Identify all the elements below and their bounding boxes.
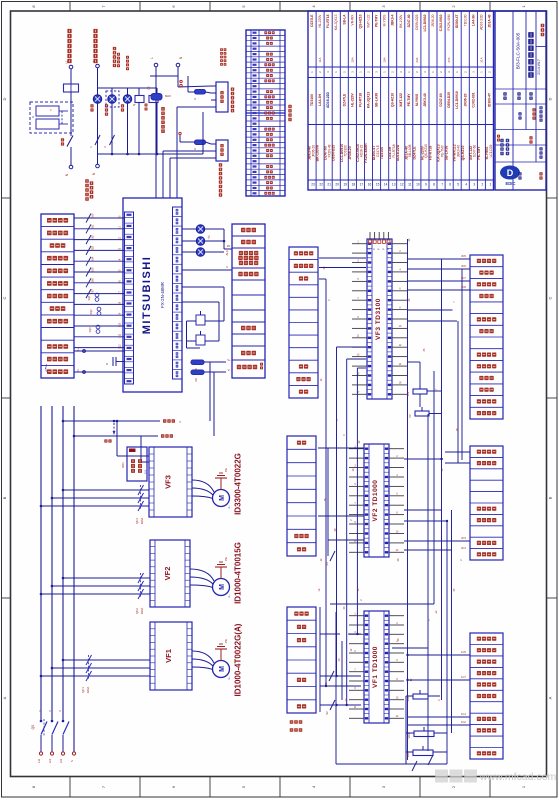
svg-text:TD3100: TD3100	[463, 14, 467, 26]
junction	[325, 685, 327, 687]
svg-text:2: 2	[415, 71, 419, 73]
junction	[440, 458, 442, 460]
svg-text:DZ47LE: DZ47LE	[412, 146, 416, 160]
svg-text:MITSUBISHI: MITSUBISHI	[141, 256, 153, 335]
svg-text:VR1: VR1	[406, 752, 410, 758]
svg-text:VF1 TD1000: VF1 TD1000	[372, 646, 379, 688]
wire S	[52, 667, 150, 669]
svg-text:QF3: QF3	[135, 518, 139, 524]
svg-text:4: 4	[311, 5, 316, 8]
svg-text:SQ1: SQ1	[88, 295, 91, 301]
wire	[406, 751, 413, 753]
svg-text:3: 3	[58, 710, 62, 712]
fuse FU0	[64, 84, 79, 92]
svg-text:2: 2	[360, 599, 363, 601]
svg-text:PE: PE	[224, 557, 228, 561]
terminal N2	[96, 164, 100, 168]
main switch QS	[41, 722, 47, 735]
svg-text:ID300-4T: ID300-4T	[455, 15, 459, 29]
sensor coil 1	[95, 293, 99, 297]
wire	[419, 394, 421, 407]
lamp HL3	[123, 95, 131, 103]
svg-text:PE: PE	[224, 468, 228, 472]
ground PE3	[220, 478, 222, 490]
svg-text:M: M	[219, 495, 226, 501]
pot RP1a	[413, 694, 428, 699]
contact S2	[330, 700, 335, 710]
svg-text:D: D	[2, 97, 7, 100]
wire	[407, 716, 470, 718]
svg-text:VF2 TD1000: VF2 TD1000	[372, 480, 379, 522]
wire	[336, 347, 338, 676]
svg-text:14: 14	[399, 363, 402, 366]
svg-text:X1: X1	[119, 226, 122, 230]
junction	[446, 520, 448, 522]
svg-text:M-Y90S: M-Y90S	[383, 14, 387, 27]
svg-text:X9: X9	[119, 312, 122, 316]
svg-text:N: N	[70, 760, 74, 762]
terminal L1	[69, 65, 73, 69]
svg-text:FU-RT18: FU-RT18	[326, 14, 330, 28]
leakage breaker QF (dashed enclosure)	[30, 102, 73, 133]
svg-text:P: P	[370, 248, 372, 250]
svg-text:20: 20	[335, 183, 339, 187]
label circuit 4	[126, 56, 129, 59]
svg-text:B/3-FLC-S0A-005: B/3-FLC-S0A-005	[516, 32, 521, 69]
svg-text:SQ3: SQ3	[89, 327, 92, 333]
braking resistor R01	[127, 447, 147, 481]
relay KA1	[216, 140, 228, 161]
svg-text:C65N-D25: C65N-D25	[447, 92, 451, 108]
svg-text:B: B	[548, 496, 553, 499]
svg-text:7: 7	[354, 669, 356, 672]
svg-text:FX2N-48M: FX2N-48M	[447, 14, 451, 30]
terminal block VF3 TD3100	[367, 239, 392, 399]
wire R	[63, 659, 150, 661]
svg-text:S4: S4	[325, 562, 329, 566]
svg-text:12: 12	[399, 344, 402, 347]
rev marks	[541, 24, 545, 28]
pot RP3a	[413, 389, 427, 394]
svg-text:N: N	[92, 172, 96, 175]
svg-text:7: 7	[101, 785, 106, 788]
wire	[451, 510, 453, 733]
svg-text:12: 12	[400, 183, 404, 187]
svg-text:3: 3	[447, 71, 451, 73]
svg-text:VF2: VF2	[163, 567, 172, 581]
svg-text:2C3: 2C3	[461, 536, 466, 540]
wire	[404, 520, 447, 522]
svg-text:4: 4	[311, 785, 316, 788]
terminal pins	[180, 80, 182, 82]
svg-text:SB1: SB1	[92, 224, 95, 229]
wire	[347, 358, 366, 360]
svg-text:3C8: 3C8	[461, 285, 466, 289]
svg-text:2: 2	[460, 559, 463, 561]
svg-text:11: 11	[357, 335, 360, 338]
wire feed bus	[98, 87, 158, 89]
svg-text:DZ47LE: DZ47LE	[310, 14, 314, 27]
wire	[319, 278, 326, 280]
svg-text:CJX2-091: CJX2-091	[471, 92, 475, 107]
inverter VF1	[150, 622, 192, 690]
wire	[188, 99, 211, 101]
svg-text:X6: X6	[119, 280, 122, 284]
svg-text:SB-LA38: SB-LA38	[375, 93, 379, 107]
contact 2	[110, 135, 115, 145]
svg-text:1: 1	[310, 71, 314, 73]
svg-text:5V: 5V	[408, 414, 412, 417]
svg-text:QF1: QF1	[81, 687, 85, 693]
wire	[337, 346, 367, 348]
wire	[407, 320, 457, 322]
svg-text:3C5: 3C5	[461, 254, 466, 258]
contact S4	[330, 551, 335, 561]
svg-text:11: 11	[354, 706, 357, 709]
svg-text:X12: X12	[119, 344, 122, 349]
svg-text:3~: 3~	[227, 505, 231, 509]
voltage arrow	[113, 423, 115, 432]
terminal T5	[176, 63, 180, 67]
contact S1	[329, 671, 334, 681]
fuse FU4	[195, 90, 206, 95]
coil KM1	[135, 96, 144, 103]
svg-text:16: 16	[368, 183, 372, 187]
input device labels column	[41, 214, 74, 378]
svg-text:R01: R01	[121, 462, 125, 468]
contact S3	[428, 755, 433, 765]
svg-text:N: N	[179, 56, 183, 59]
svg-text:5: 5	[241, 5, 246, 8]
svg-text:0: 0	[343, 434, 346, 436]
mid labels middle	[287, 436, 316, 556]
terminal T3	[154, 63, 158, 67]
wire	[330, 603, 434, 605]
svg-text:FX2N-48MR: FX2N-48MR	[364, 143, 368, 163]
right labels lower	[470, 633, 503, 759]
svg-text:5: 5	[457, 183, 459, 187]
wire	[392, 647, 428, 649]
sensor coil 3	[96, 325, 100, 329]
terminal N1	[69, 165, 73, 169]
wire	[320, 675, 361, 677]
svg-text:X3: X3	[119, 247, 122, 251]
svg-text:AD16-22D: AD16-22D	[479, 14, 483, 30]
svg-text:L21: L21	[48, 758, 52, 763]
svg-text:LA4-3H: LA4-3H	[471, 14, 475, 26]
svg-text:D25A: D25A	[140, 517, 144, 524]
wire T	[41, 675, 150, 677]
svg-text:1: 1	[455, 71, 459, 73]
svg-text:5: 5	[241, 785, 246, 788]
svg-text:QS-HZ10: QS-HZ10	[358, 14, 362, 28]
wire	[97, 68, 99, 95]
ground PE1	[220, 649, 222, 661]
svg-text:16: 16	[399, 382, 402, 385]
svg-text:18: 18	[456, 428, 459, 431]
svg-text:VF3: VF3	[164, 475, 173, 489]
svg-text:SB5: SB5	[92, 267, 95, 272]
wire	[407, 724, 470, 726]
svg-text:DZ47-60: DZ47-60	[439, 93, 443, 106]
svg-text:C: C	[2, 296, 7, 299]
svg-text:10V: 10V	[406, 391, 410, 396]
terminal pin2	[179, 132, 181, 134]
svg-text:1: 1	[407, 71, 411, 73]
wire	[404, 458, 443, 460]
lamp HL1	[93, 95, 101, 103]
svg-text:ID3300-4T0022G: ID3300-4T0022G	[234, 453, 243, 515]
svg-text:D: D	[507, 168, 514, 178]
svg-text:10: 10	[337, 658, 341, 661]
svg-text:27A: 27A	[447, 57, 451, 62]
svg-text:2014.WL7: 2014.WL7	[537, 59, 541, 75]
svg-text:P: P	[379, 248, 381, 250]
wire	[70, 92, 72, 136]
svg-text:SB3: SB3	[92, 245, 95, 250]
svg-text:D20A: D20A	[86, 686, 90, 693]
wire	[461, 269, 463, 460]
svg-text:2: 2	[451, 785, 456, 788]
svg-text:X0: X0	[119, 215, 122, 219]
svg-text:3: 3	[399, 71, 403, 73]
svg-text:L31: L31	[59, 758, 63, 763]
svg-text:v3: v3	[317, 588, 321, 591]
contact KA2	[196, 315, 205, 325]
power rail L1	[40, 406, 42, 722]
svg-text:VR3: VR3	[407, 733, 411, 739]
wire	[356, 368, 358, 634]
svg-text:TD3100: TD3100	[310, 94, 314, 106]
svg-text:FX-2N-48MR: FX-2N-48MR	[160, 282, 165, 308]
wire	[406, 732, 414, 734]
svg-text:2: 2	[439, 71, 443, 73]
svg-text:19: 19	[344, 183, 348, 187]
svg-text:1: 1	[490, 183, 492, 187]
svg-text:6: 6	[396, 493, 398, 496]
svg-text:3: 3	[350, 71, 354, 73]
svg-text:JR36-20: JR36-20	[463, 93, 467, 106]
wire	[346, 359, 348, 705]
svg-text:12: 12	[410, 678, 413, 681]
svg-text:1: 1	[521, 785, 526, 788]
drawing title	[528, 32, 534, 38]
terminal L2	[96, 64, 100, 68]
svg-text:P: P	[374, 248, 376, 250]
wire	[357, 367, 366, 369]
svg-text:23: 23	[323, 266, 326, 269]
svg-text:SB4: SB4	[92, 256, 95, 261]
svg-text:DZ47LE: DZ47LE	[342, 93, 346, 106]
svg-text:17: 17	[360, 183, 364, 187]
service power N	[74, 371, 125, 373]
lamp common wire	[205, 228, 224, 230]
junction	[406, 679, 408, 681]
svg-text:SB2: SB2	[92, 235, 95, 240]
bus N	[98, 153, 204, 155]
svg-text:8: 8	[31, 785, 36, 788]
svg-text:B: B	[2, 496, 7, 499]
svg-text:C65N-D25: C65N-D25	[332, 145, 336, 162]
svg-text:19A: 19A	[383, 57, 387, 62]
svg-text:EDIC: EDIC	[505, 181, 515, 186]
bus 220V N	[74, 435, 158, 437]
svg-text:0: 0	[328, 299, 331, 301]
motor M3	[213, 490, 230, 507]
wire	[156, 103, 158, 155]
svg-text:1: 1	[354, 613, 356, 616]
svg-text:8: 8	[433, 183, 435, 187]
svg-text:11: 11	[408, 183, 412, 187]
wire	[162, 151, 164, 198]
svg-text:FU-RT18: FU-RT18	[358, 93, 362, 107]
output device labels column	[232, 224, 265, 378]
wire	[127, 103, 129, 154]
svg-text:3~: 3~	[227, 676, 231, 680]
svg-text:4: 4	[399, 269, 401, 272]
svg-text:4: 4	[396, 474, 398, 477]
svg-text:X11: X11	[119, 333, 122, 338]
svg-text:14: 14	[384, 183, 388, 187]
svg-text:SQ2: SQ2	[90, 309, 93, 315]
bus 220V L	[63, 420, 160, 422]
svg-text:JBK3-4: JBK3-4	[391, 14, 395, 26]
svg-text:M1: M1	[227, 245, 231, 248]
label circuit 3	[113, 47, 116, 50]
svg-text:11A: 11A	[318, 57, 322, 62]
VF1 terminal stubs	[349, 615, 364, 617]
svg-text:1C7: 1C7	[461, 675, 466, 679]
svg-text:A: A	[2, 696, 7, 699]
svg-text:1C5: 1C5	[461, 650, 466, 654]
svg-text:MAX: MAX	[165, 94, 171, 98]
svg-text:Y1: Y1	[207, 235, 211, 239]
svg-text:SB0: SB0	[92, 213, 95, 218]
svg-text:20: 20	[408, 298, 411, 301]
inverter VF3	[149, 447, 192, 517]
svg-text:S2: S2	[325, 711, 329, 715]
power rail L2	[51, 406, 53, 722]
svg-text:C: C	[548, 296, 553, 299]
svg-text:JBK3-40: JBK3-40	[423, 93, 427, 107]
svg-text:M: M	[219, 584, 226, 590]
junction	[346, 704, 348, 706]
svg-text:JR36-20: JR36-20	[348, 146, 352, 159]
svg-text:3: 3	[326, 71, 330, 73]
wire	[328, 539, 364, 541]
lamp HL2	[108, 95, 116, 103]
wire	[341, 641, 343, 700]
svg-text:20: 20	[408, 238, 411, 241]
wire	[457, 321, 459, 463]
terminal block VF1 TD1000	[364, 611, 389, 723]
svg-text:8: 8	[396, 678, 398, 681]
mid labels lower	[287, 607, 316, 713]
svg-text:XMT-122: XMT-122	[399, 93, 403, 107]
wire	[407, 654, 470, 656]
svg-text:AD16-22D: AD16-22D	[326, 91, 330, 108]
svg-text:7: 7	[354, 502, 356, 505]
svg-text:X5: X5	[119, 269, 122, 273]
svg-text:Q: Q	[132, 103, 136, 106]
svg-text:2: 2	[482, 183, 484, 187]
svg-text:2: 2	[488, 71, 492, 73]
wire	[176, 107, 178, 198]
svg-text:AD16-22D: AD16-22D	[396, 144, 400, 161]
svg-text:X2: X2	[119, 236, 122, 240]
contact 1	[95, 135, 100, 145]
svg-text:2: 2	[391, 71, 395, 73]
wire R	[63, 489, 149, 491]
fuse FU2	[191, 370, 204, 375]
wire	[320, 633, 340, 635]
svg-text:3: 3	[471, 71, 475, 73]
svg-text:22: 22	[358, 440, 361, 443]
wire	[446, 521, 448, 764]
svg-text:1C2: 1C2	[461, 720, 466, 724]
svg-text:22: 22	[319, 183, 323, 187]
svg-text:1: 1	[358, 71, 362, 73]
contact KA3	[196, 335, 205, 345]
svg-text:CJX2-0910: CJX2-0910	[439, 14, 443, 31]
svg-text:3: 3	[48, 710, 52, 712]
svg-text:D: D	[548, 97, 553, 100]
svg-text:3: 3	[381, 785, 386, 788]
lamp Y3	[196, 248, 204, 256]
wire	[407, 268, 470, 270]
svg-text:KA-JQX13: KA-JQX13	[334, 14, 338, 30]
svg-text:3C6: 3C6	[461, 264, 466, 268]
VF3 terminal stubs	[352, 243, 367, 245]
svg-text:DZ47-60: DZ47-60	[407, 14, 411, 27]
svg-text:3~: 3~	[227, 594, 231, 598]
svg-text:BK-100VA: BK-100VA	[316, 144, 320, 161]
wire	[111, 103, 113, 154]
logo EDIC	[500, 166, 520, 180]
wire	[406, 763, 447, 765]
svg-text:M-Y90S: M-Y90S	[415, 93, 419, 106]
svg-text:3: 3	[375, 71, 379, 73]
svg-text:N-: N-	[76, 369, 80, 372]
svg-text:BK-100V: BK-100V	[399, 14, 403, 28]
svg-text:L: L	[150, 57, 154, 59]
wire	[209, 362, 211, 421]
wire	[407, 361, 420, 363]
svg-text:12: 12	[396, 715, 399, 718]
svg-text:1: 1	[431, 71, 435, 73]
junction	[406, 654, 408, 656]
power rail N	[73, 406, 75, 752]
lamp Y1	[196, 225, 204, 233]
label control power	[220, 48, 223, 51]
svg-text:PE-TMY: PE-TMY	[407, 93, 411, 107]
right labels middle	[470, 446, 503, 560]
svg-text:JR36-20: JR36-20	[431, 14, 435, 27]
svg-text:VR-WX: VR-WX	[350, 14, 354, 26]
svg-text:ID1000-4T0022G(A): ID1000-4T0022G(A)	[234, 623, 243, 696]
svg-text:15: 15	[376, 183, 380, 187]
svg-text:LC1-D09: LC1-D09	[489, 144, 493, 157]
svg-text:S: S	[31, 116, 35, 118]
svg-text:a: a	[179, 420, 181, 424]
svg-text:2: 2	[318, 71, 322, 73]
VF2 terminal stubs	[349, 448, 364, 450]
svg-text:D1: D1	[147, 86, 151, 90]
wire S	[52, 585, 150, 587]
svg-text:VR2: VR2	[406, 696, 410, 702]
svg-text:2: 2	[367, 71, 371, 73]
fuse FU1	[191, 360, 204, 365]
